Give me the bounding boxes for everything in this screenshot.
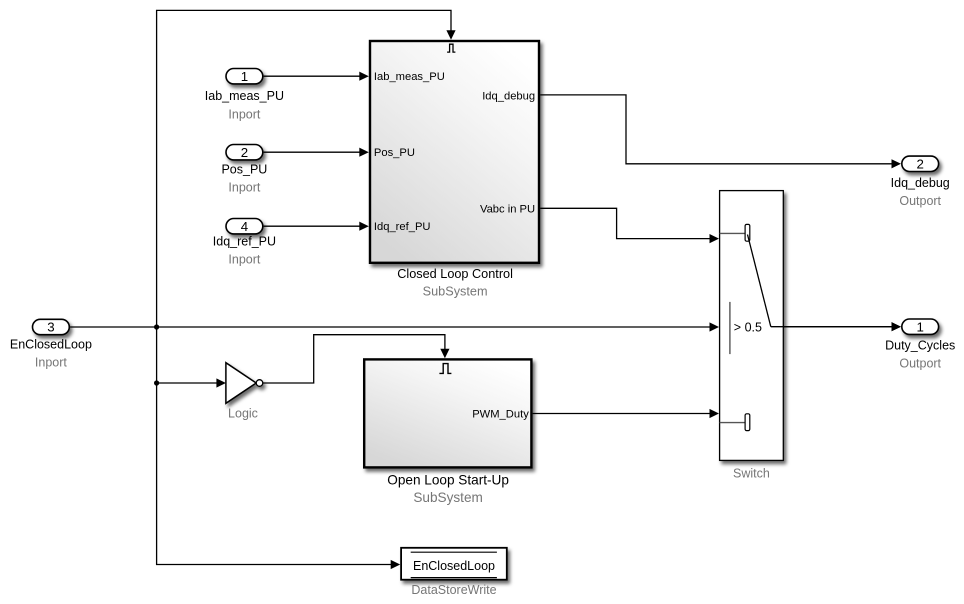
svg-text:Switch: Switch	[733, 467, 770, 481]
svg-text:SubSystem: SubSystem	[413, 490, 483, 505]
svg-text:Idq_ref_PU: Idq_ref_PU	[213, 235, 276, 249]
svg-text:Inport: Inport	[35, 356, 67, 370]
svg-text:Inport: Inport	[228, 107, 260, 121]
svg-text:Duty_Cycles: Duty_Cycles	[885, 339, 955, 353]
svg-text:1: 1	[241, 69, 248, 84]
svg-text:4: 4	[241, 219, 248, 234]
svg-text:Pos_PU: Pos_PU	[374, 147, 415, 159]
svg-text:SubSystem: SubSystem	[423, 285, 488, 299]
svg-text:Vabc in PU: Vabc in PU	[480, 203, 535, 215]
svg-text:EnClosedLoop: EnClosedLoop	[413, 559, 495, 573]
svg-text:3: 3	[47, 320, 54, 335]
svg-text:Idq_ref_PU: Idq_ref_PU	[374, 221, 431, 233]
svg-text:Closed Loop Control: Closed Loop Control	[397, 267, 513, 281]
svg-text:> 0.5: > 0.5	[734, 321, 762, 335]
svg-text:2: 2	[241, 145, 248, 160]
svg-text:Inport: Inport	[228, 181, 260, 195]
svg-text:EnClosedLoop: EnClosedLoop	[10, 338, 92, 352]
svg-text:Idq_debug: Idq_debug	[891, 176, 950, 190]
svg-text:PWM_Duty: PWM_Duty	[472, 409, 529, 421]
svg-text:Iab_meas_PU: Iab_meas_PU	[374, 71, 445, 83]
svg-text:1: 1	[916, 319, 923, 334]
svg-text:Open Loop Start-Up: Open Loop Start-Up	[387, 473, 509, 488]
svg-text:Outport: Outport	[899, 194, 941, 208]
svg-text:Outport: Outport	[899, 357, 941, 371]
svg-text:Iab_meas_PU: Iab_meas_PU	[205, 89, 284, 103]
svg-text:Pos_PU: Pos_PU	[221, 162, 267, 176]
svg-text:DataStoreWrite: DataStoreWrite	[411, 583, 496, 597]
svg-text:Idq_debug: Idq_debug	[482, 90, 535, 102]
svg-text:Logic: Logic	[228, 406, 258, 420]
svg-text:Inport: Inport	[228, 253, 260, 267]
svg-text:2: 2	[916, 156, 923, 171]
